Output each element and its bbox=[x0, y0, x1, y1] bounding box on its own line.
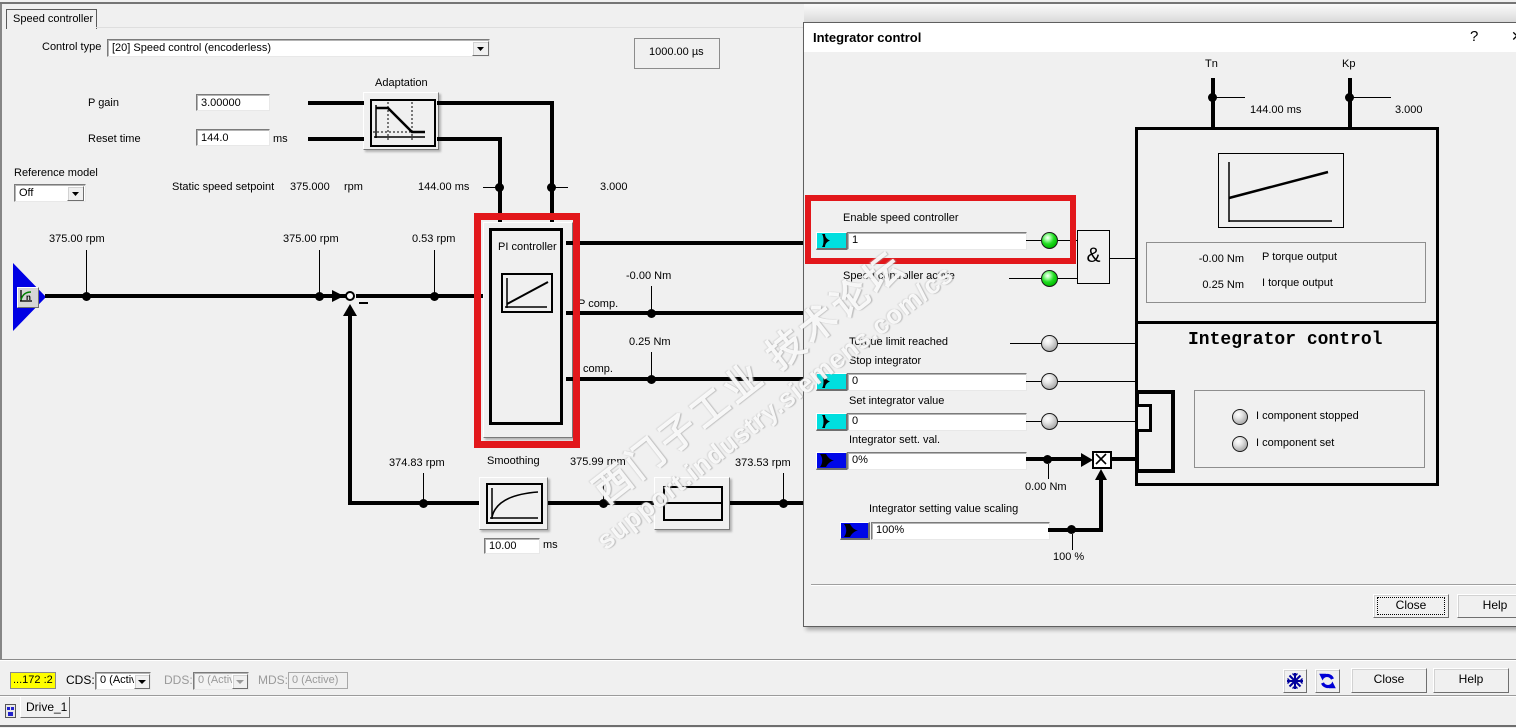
window bottom line bbox=[0, 725, 1516, 727]
label Speed controller active bbox=[843, 270, 955, 283]
label Static speed setpoint bbox=[172, 181, 274, 194]
freeze toolbar button bbox=[1283, 669, 1307, 693]
up arrow into multiplier bbox=[1095, 469, 1107, 480]
svg-text:n: n bbox=[26, 293, 31, 302]
PI controller block bbox=[483, 222, 573, 438]
wire bbox=[1026, 381, 1041, 382]
feedback vertical wire bbox=[348, 315, 352, 505]
label Stop integrator bbox=[849, 355, 921, 368]
wire bbox=[1026, 240, 1041, 241]
value 3.000 bbox=[1395, 104, 1423, 117]
label DDS (disabled) bbox=[164, 674, 193, 687]
actual speed bottom wire bbox=[348, 501, 481, 505]
integrator symbol outer bbox=[1135, 390, 1175, 473]
wire AND output bbox=[1110, 258, 1135, 259]
wire bbox=[1010, 343, 1041, 344]
node tap 1 bbox=[82, 292, 91, 301]
adaptation block bbox=[363, 92, 439, 150]
label Adaptation bbox=[375, 77, 428, 90]
PI block outer box bbox=[1135, 127, 1439, 486]
LED torque limit (gray) bbox=[1041, 335, 1058, 352]
wire I component output bbox=[566, 377, 803, 381]
field MDS 0 (Active) bbox=[288, 672, 348, 689]
tab Speed controller bbox=[6, 9, 97, 29]
integrator symbol notch bbox=[1135, 404, 1152, 432]
combo DDS disabled bbox=[193, 672, 249, 690]
wire adaptation to Tn vertical bbox=[437, 137, 502, 141]
wire multiplier to block bbox=[1112, 457, 1135, 461]
label MDS (disabled) bbox=[258, 674, 288, 687]
value 0.25 Nm bbox=[1194, 279, 1244, 292]
BI icon enable bbox=[816, 232, 848, 250]
input P gain 3.00000 bbox=[196, 94, 270, 111]
node I comp tap bbox=[647, 375, 656, 384]
value 0.00 Nm bbox=[1025, 481, 1067, 494]
label ms bbox=[273, 133, 288, 146]
red highlight box PI controller bbox=[474, 213, 580, 448]
label Integrator setting value scaling bbox=[869, 503, 1018, 516]
label P torque output bbox=[1262, 251, 1337, 264]
PI graph icon bbox=[501, 273, 553, 313]
label P comp. bbox=[578, 298, 618, 311]
tab Drive_1 bbox=[20, 697, 70, 718]
label CDS bbox=[66, 674, 95, 687]
divider bbox=[1135, 321, 1439, 324]
node Kp bbox=[1345, 93, 1354, 102]
node P comp tap bbox=[647, 309, 656, 318]
label Smoothing bbox=[487, 455, 540, 468]
minus sign bbox=[359, 302, 368, 304]
Tn vertical wire bbox=[1211, 78, 1215, 128]
smoothing block bbox=[479, 477, 548, 530]
footer etched line bbox=[811, 584, 1516, 585]
label rpm bbox=[344, 181, 363, 194]
label 374.83 rpm bbox=[389, 457, 445, 470]
label 0.25 Nm bbox=[629, 336, 671, 349]
input set 0 bbox=[847, 413, 1027, 431]
LED enable (green) bbox=[1041, 232, 1058, 249]
Kp vertical wire bbox=[1348, 78, 1352, 128]
node Tn bbox=[1208, 93, 1217, 102]
feedback up arrow bbox=[343, 304, 357, 316]
input Reset time 144.0 bbox=[196, 129, 270, 146]
label 373.53 rpm bbox=[735, 457, 791, 470]
bottom etched separator bbox=[0, 659, 1516, 660]
radio I component stopped bbox=[1232, 409, 1248, 425]
dialog Help button bbox=[1457, 594, 1516, 618]
input enable 1 bbox=[847, 232, 1027, 250]
label Enable speed controller bbox=[843, 212, 959, 225]
input smoothing 10.00 ms bbox=[484, 538, 540, 554]
AND gate box bbox=[1077, 230, 1110, 284]
label Control type bbox=[42, 41, 101, 54]
label 375.00 rpm (1) bbox=[49, 233, 105, 246]
arrow into multiplier bbox=[1081, 453, 1093, 467]
watermark line 1 bbox=[571, 231, 929, 524]
pane top faint line bbox=[96, 27, 803, 28]
input scaling 100% bbox=[871, 522, 1050, 540]
radio group box bbox=[1194, 390, 1425, 468]
LED set (gray) bbox=[1041, 413, 1058, 430]
watermark line 2 bbox=[583, 251, 968, 563]
wire P component output bbox=[566, 311, 803, 315]
value 100 % bbox=[1053, 551, 1084, 564]
node tap 3 bbox=[430, 292, 439, 301]
node tap 2 bbox=[315, 292, 324, 301]
wire P gain to adaptation bbox=[308, 101, 364, 105]
node bottom tap 1 bbox=[419, 499, 428, 508]
yellow parameter box ...172:2 bbox=[10, 672, 56, 689]
combo CDS bbox=[95, 672, 151, 690]
value -0.00 Nm bbox=[1194, 253, 1244, 266]
input stop 0 bbox=[847, 373, 1027, 391]
node 0.00 Nm tap bbox=[1043, 455, 1052, 464]
title Integrator control (mono) bbox=[1188, 334, 1382, 347]
torque output value box bbox=[1146, 242, 1426, 303]
main Help button bbox=[1433, 668, 1509, 693]
node Tn tap bbox=[495, 183, 504, 192]
wire adaptation to Kp vertical bbox=[437, 101, 554, 105]
wire bbox=[1058, 278, 1077, 279]
label Reference model bbox=[14, 167, 98, 180]
combo control type bbox=[107, 39, 490, 57]
label Torque limit reached bbox=[849, 336, 948, 349]
wire PI torque output bbox=[566, 241, 803, 245]
dialog Integrator control bbox=[803, 22, 1516, 627]
label I torque output bbox=[1262, 277, 1333, 290]
arrow into summing point bbox=[332, 290, 344, 302]
node bottom tap 3 bbox=[779, 499, 788, 508]
LED stop (gray) bbox=[1041, 373, 1058, 390]
thick wire scaling bbox=[1048, 528, 1103, 532]
main Close button bbox=[1351, 668, 1427, 693]
LED active (green) bbox=[1041, 270, 1058, 287]
BI icon stop bbox=[816, 373, 848, 391]
gradient band above dialog bbox=[804, 4, 1516, 22]
window top edge line bbox=[0, 2, 1516, 4]
value 375.000 bbox=[290, 181, 330, 194]
value 144.00 ms bbox=[1250, 104, 1301, 117]
speed setpoint input triangle bbox=[13, 263, 46, 331]
title bar bbox=[804, 23, 1516, 52]
label Kp bbox=[1342, 58, 1355, 71]
value 3.000 bbox=[600, 181, 628, 194]
wire summing to PI controller bbox=[356, 294, 483, 298]
wire reset time to adaptation bbox=[308, 137, 364, 141]
multiplier X box bbox=[1092, 451, 1112, 469]
wire bbox=[1058, 343, 1135, 344]
wire bbox=[1058, 240, 1077, 241]
main speed setpoint wire bbox=[45, 294, 346, 298]
label 375.00 rpm (2) bbox=[283, 233, 339, 246]
refresh toolbar button bbox=[1315, 669, 1340, 693]
label 0.53 rpm bbox=[412, 233, 455, 246]
CI icon sett val (blue) bbox=[816, 452, 848, 470]
PI graph icon bbox=[1218, 153, 1344, 228]
label Integrator sett. val. bbox=[849, 434, 940, 447]
label Set integrator value bbox=[849, 395, 944, 408]
limiter block bbox=[654, 477, 730, 530]
label -0.00 Nm bbox=[626, 270, 671, 283]
node bottom tap 2 bbox=[599, 499, 608, 508]
BI icon set bbox=[816, 413, 848, 431]
wire bbox=[1009, 278, 1041, 279]
wire bbox=[1058, 421, 1135, 422]
combo reference model Off bbox=[14, 184, 86, 202]
radio I component set bbox=[1232, 436, 1248, 452]
tab strip separator bbox=[0, 695, 1516, 696]
label Reset time bbox=[88, 133, 141, 146]
wire bbox=[1058, 381, 1135, 382]
label 375.99 rpm bbox=[570, 456, 626, 469]
summing node circle bbox=[345, 291, 355, 301]
drive icon bbox=[5, 704, 16, 718]
sampling time box 1000.00 us bbox=[634, 38, 720, 69]
label comp. bbox=[583, 363, 613, 376]
label Tn bbox=[1205, 58, 1218, 71]
CI icon scaling (blue) bbox=[840, 522, 870, 540]
dialog Close button (default) bbox=[1373, 594, 1449, 618]
value 144.00 ms bbox=[418, 181, 469, 194]
vertical wire from scaling bbox=[1099, 479, 1103, 531]
window left edge line bbox=[0, 4, 2, 659]
thick wire to multiplier bbox=[1026, 457, 1082, 461]
input sett val 0% bbox=[847, 452, 1027, 470]
red highlight box enable bbox=[805, 195, 1076, 264]
node Kp tap bbox=[547, 183, 556, 192]
label P gain bbox=[88, 97, 119, 110]
node 100% tap bbox=[1067, 525, 1076, 534]
wire bbox=[1026, 421, 1041, 422]
